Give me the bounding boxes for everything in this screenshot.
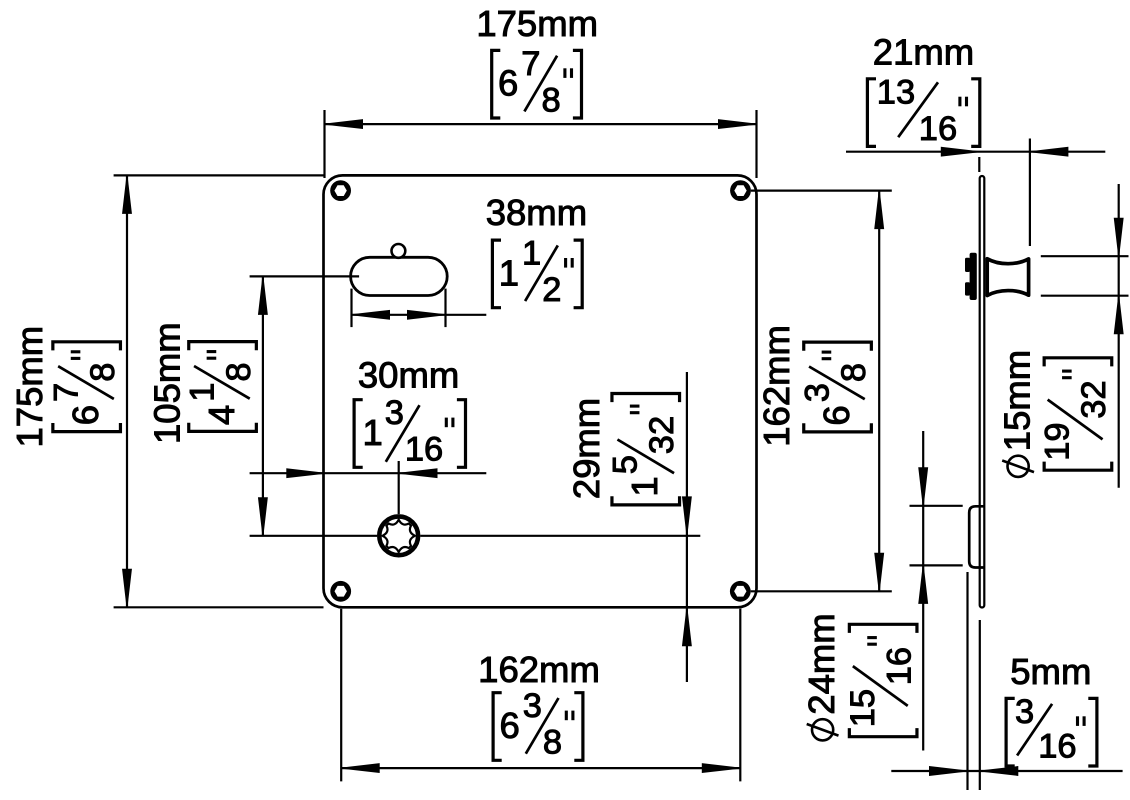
svg-text:1: 1 (522, 235, 541, 273)
svg-text:105mm: 105mm (147, 322, 188, 444)
svg-text:38mm: 38mm (486, 192, 587, 233)
svg-text:16: 16 (1038, 727, 1076, 765)
dimension 21mm: dim line with outside arrows, label (846, 32, 1105, 247)
svg-text:13: 13 (877, 73, 915, 111)
svg-text:6: 6 (816, 405, 857, 425)
svg-text:3: 3 (523, 687, 542, 725)
svg-text:3: 3 (1015, 693, 1034, 731)
torx spindle hole (377, 514, 420, 557)
svg-text:8: 8 (835, 363, 873, 382)
svg-text:7: 7 (47, 383, 85, 402)
svg-text:24mm: 24mm (801, 613, 842, 714)
svg-text:1: 1 (499, 252, 519, 293)
svg-text:7: 7 (521, 45, 540, 83)
svg-text:3: 3 (798, 383, 836, 402)
thumbturn knob (987, 259, 1028, 296)
side view plate (980, 176, 985, 608)
svg-text:30mm: 30mm (358, 355, 459, 396)
dimension 105mm: extension lines, dim line, arrows, label (147, 276, 701, 535)
svg-text:5: 5 (606, 455, 644, 474)
dimension 175mm left: extension lines, dim line, arrows, label (9, 175, 324, 607)
dimension 38mm: extension lines, dim line, arrows, label (352, 192, 588, 327)
svg-text:1: 1 (362, 412, 382, 453)
svg-text:1: 1 (183, 383, 221, 402)
torx boss side view (969, 506, 984, 567)
svg-text:4: 4 (201, 405, 242, 425)
svg-text:16: 16 (880, 647, 918, 685)
svg-text:8: 8 (84, 363, 122, 382)
svg-text:16: 16 (919, 110, 957, 148)
corner hole bottom-left (330, 581, 351, 602)
svg-text:15: 15 (844, 689, 882, 727)
key slot (stadium hole) (351, 257, 448, 295)
small circle on slot top (392, 244, 406, 258)
svg-text:8: 8 (543, 724, 562, 762)
svg-text:175mm: 175mm (9, 326, 50, 448)
svg-text:162mm: 162mm (478, 649, 600, 690)
svg-text:6: 6 (498, 63, 518, 104)
dimension diameter 15mm: extension lines, dim line, arrows, label (997, 184, 1129, 488)
svg-text:8: 8 (542, 81, 561, 119)
svg-text:3: 3 (385, 394, 404, 432)
corner hole top-right (730, 180, 751, 201)
svg-text:175mm: 175mm (476, 3, 598, 44)
dimension diameter 24mm: extension lines, dim line, arrows, label (801, 431, 963, 751)
svg-text:162mm: 162mm (756, 325, 797, 447)
svg-text:2: 2 (542, 271, 561, 309)
svg-text:8: 8 (220, 362, 258, 381)
svg-text:29mm: 29mm (566, 398, 607, 499)
dimension 30mm: dim line with outside arrows, label (250, 355, 487, 515)
dimension 162mm right: extension lines, dim line, arrows, label (751, 191, 892, 592)
svg-text:15mm: 15mm (997, 350, 1038, 451)
svg-text:16: 16 (405, 431, 443, 469)
dimension 162mm bottom: extension lines, dim line, arrows, label (341, 609, 740, 782)
corner hole top-left (330, 180, 351, 201)
dimension 175mm top: extension lines, dim line, arrows, label (325, 3, 757, 178)
svg-text:21mm: 21mm (873, 32, 974, 73)
dimension 29mm: dim line with outside arrows, label (566, 372, 691, 682)
svg-text:19: 19 (1039, 422, 1077, 460)
svg-text:5mm: 5mm (1010, 651, 1091, 692)
svg-text:32: 32 (1075, 380, 1113, 418)
plate front view outline (324, 175, 757, 607)
dimension 5mm: extension lines, dim line, arrows, label (891, 572, 1122, 790)
svg-text:1: 1 (624, 476, 665, 496)
corner hole bottom-right (730, 581, 751, 602)
svg-text:32: 32 (643, 416, 681, 454)
svg-text:6: 6 (499, 705, 519, 746)
svg-text:6: 6 (65, 405, 106, 425)
spindle washer stack (solid) (965, 253, 977, 300)
